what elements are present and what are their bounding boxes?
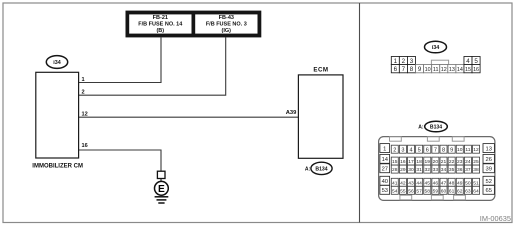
svg-text:6: 6 bbox=[394, 66, 398, 73]
B134 pin 29 bbox=[399, 165, 406, 173]
svg-text:12: 12 bbox=[441, 67, 447, 73]
i84 pin 3 bbox=[407, 57, 415, 65]
svg-text:1: 1 bbox=[383, 146, 386, 152]
svg-text:15: 15 bbox=[392, 159, 398, 165]
B134 pin 49 bbox=[456, 178, 463, 186]
pin A39 label bbox=[286, 110, 297, 116]
svg-text:22: 22 bbox=[449, 159, 455, 165]
svg-text:A:: A: bbox=[418, 125, 424, 131]
svg-text:3: 3 bbox=[410, 58, 414, 65]
svg-text:54: 54 bbox=[392, 188, 398, 194]
svg-text:42: 42 bbox=[400, 180, 406, 186]
B134 pin 25 bbox=[473, 157, 480, 165]
svg-text:52: 52 bbox=[485, 179, 491, 185]
svg-text:FB-43: FB-43 bbox=[219, 15, 234, 21]
B134 pin 32 bbox=[424, 165, 431, 173]
svg-text:11: 11 bbox=[433, 67, 439, 73]
i84 pin 8 bbox=[407, 65, 415, 74]
pin 2 label bbox=[82, 90, 85, 96]
B134 pin 11 bbox=[464, 145, 471, 153]
B134 pin 26 bbox=[483, 154, 494, 163]
svg-text:8: 8 bbox=[410, 66, 414, 73]
i84 pin 1 bbox=[391, 57, 399, 65]
svg-text:14: 14 bbox=[457, 67, 463, 73]
connector B134 housing bbox=[379, 137, 495, 201]
B134 pin 23 bbox=[456, 157, 463, 165]
B134 pin 37 bbox=[464, 165, 471, 173]
svg-text:(B): (B) bbox=[156, 28, 164, 34]
svg-text:29: 29 bbox=[400, 167, 406, 173]
svg-text:61: 61 bbox=[449, 188, 455, 194]
connector label i84 (immobilizer CM connector) bbox=[46, 56, 67, 69]
i84 pin 11 bbox=[432, 65, 440, 74]
B134 pin 12 bbox=[473, 145, 480, 153]
B134 pin 51 bbox=[473, 178, 480, 186]
wire immobilizer pin 12 to ECM pin A39 bbox=[79, 116, 299, 118]
svg-text:17: 17 bbox=[408, 159, 414, 165]
wire FB-21 to immobilizer pin 1 bbox=[79, 37, 161, 82]
B134 pin 64 bbox=[473, 186, 480, 194]
B134 pin 17 bbox=[408, 157, 415, 165]
svg-text:8: 8 bbox=[442, 147, 445, 153]
B134 pin 53 bbox=[380, 185, 390, 194]
B134 pin 31 bbox=[416, 165, 423, 173]
B134 pin 4 bbox=[408, 145, 415, 153]
pin 16 label bbox=[82, 143, 88, 149]
i84 pin 10 bbox=[424, 65, 432, 74]
svg-text:65: 65 bbox=[485, 188, 491, 194]
svg-text:i34: i34 bbox=[432, 45, 440, 51]
i84 pin 14 bbox=[456, 65, 464, 74]
svg-text:A:: A: bbox=[305, 166, 311, 172]
svg-text:62: 62 bbox=[457, 188, 463, 194]
B134 pin 35 bbox=[448, 165, 455, 173]
B134 pin 28 bbox=[391, 165, 398, 173]
svg-text:49: 49 bbox=[457, 180, 463, 186]
B134 pin 58 bbox=[424, 186, 431, 194]
B134 pin 15 bbox=[391, 157, 398, 165]
svg-text:2: 2 bbox=[82, 90, 85, 96]
B134 pin 57 bbox=[416, 186, 423, 194]
B134 pin 19 bbox=[424, 157, 431, 165]
B134 pin 60 bbox=[440, 186, 447, 194]
svg-text:47: 47 bbox=[441, 180, 447, 186]
svg-text:33: 33 bbox=[433, 167, 439, 173]
svg-text:24: 24 bbox=[465, 159, 471, 165]
connector label A: B134 (under ECM) bbox=[305, 162, 332, 174]
label ECM bbox=[313, 67, 328, 74]
ground E (chassis ground) bbox=[155, 171, 169, 203]
B134 pin 30 bbox=[408, 165, 415, 173]
svg-text:2: 2 bbox=[402, 58, 406, 65]
svg-text:43: 43 bbox=[408, 180, 414, 186]
B134 pin 18 bbox=[416, 157, 423, 165]
svg-text:36: 36 bbox=[457, 167, 463, 173]
B134 pin 3 bbox=[399, 145, 406, 153]
svg-text:10: 10 bbox=[425, 67, 431, 73]
svg-text:9: 9 bbox=[450, 147, 453, 153]
label IMMOBILIZER CM bbox=[32, 164, 83, 170]
connector i84 key tab bbox=[431, 60, 448, 64]
i84 pin 15 bbox=[464, 65, 472, 74]
svg-text:63: 63 bbox=[465, 188, 471, 194]
svg-text:19: 19 bbox=[425, 159, 431, 165]
svg-text:A39: A39 bbox=[286, 110, 297, 116]
svg-text:F/B FUSE NO. 14: F/B FUSE NO. 14 bbox=[138, 22, 183, 28]
svg-text:IM-00635: IM-00635 bbox=[480, 214, 511, 223]
B134 bottom tabs bbox=[400, 195, 466, 200]
B134 pin 47 bbox=[440, 178, 447, 186]
svg-text:10: 10 bbox=[457, 147, 463, 153]
svg-text:7: 7 bbox=[434, 147, 437, 153]
svg-text:16: 16 bbox=[82, 143, 88, 149]
svg-text:FB-21: FB-21 bbox=[153, 15, 168, 21]
B134 pin 56 bbox=[408, 186, 415, 194]
svg-text:15: 15 bbox=[465, 67, 471, 73]
i84 pin 4 bbox=[464, 57, 472, 65]
i84 pin 12 bbox=[440, 65, 448, 74]
svg-text:1: 1 bbox=[394, 58, 398, 65]
i84 pin 16 bbox=[472, 65, 480, 74]
svg-text:30: 30 bbox=[408, 167, 414, 173]
svg-text:60: 60 bbox=[441, 188, 447, 194]
B134 pin 34 bbox=[440, 165, 447, 173]
svg-text:i34: i34 bbox=[53, 60, 61, 66]
B134 pin 2 bbox=[391, 145, 398, 153]
svg-text:64: 64 bbox=[473, 188, 479, 194]
svg-text:13: 13 bbox=[485, 146, 491, 152]
svg-text:31: 31 bbox=[416, 167, 422, 173]
B134 pin 54 bbox=[391, 186, 398, 194]
immobilizer CM box bbox=[36, 72, 79, 158]
svg-text:46: 46 bbox=[433, 180, 439, 186]
svg-text:1: 1 bbox=[82, 77, 85, 83]
svg-text:E: E bbox=[158, 184, 165, 195]
B134 pin 13 bbox=[483, 144, 494, 153]
B134 pin 20 bbox=[432, 157, 439, 165]
svg-text:14: 14 bbox=[382, 157, 389, 163]
svg-text:20: 20 bbox=[433, 159, 439, 165]
i84 pin 9 bbox=[416, 65, 424, 74]
B134 pin 33 bbox=[432, 165, 439, 173]
fuse FB-21 F/B FUSE NO. 14 (B) bbox=[129, 14, 192, 34]
svg-text:53: 53 bbox=[382, 188, 388, 194]
B134 pin 14 bbox=[380, 154, 390, 163]
connector label A: B134 (pinout view) bbox=[418, 121, 447, 132]
svg-text:ECM: ECM bbox=[313, 67, 328, 74]
svg-text:25: 25 bbox=[473, 159, 479, 165]
pin 1 label bbox=[82, 77, 85, 83]
svg-text:13: 13 bbox=[449, 67, 455, 73]
B134 pin 61 bbox=[448, 186, 455, 194]
svg-text:B134: B134 bbox=[430, 125, 442, 131]
B134 pin 5 bbox=[416, 145, 423, 153]
ECM box bbox=[298, 75, 343, 158]
svg-text:35: 35 bbox=[449, 167, 455, 173]
B134 pin 48 bbox=[448, 178, 455, 186]
B134 top tabs bbox=[390, 137, 465, 141]
B134 pin 55 bbox=[399, 186, 406, 194]
B134 pin 27 bbox=[380, 164, 390, 173]
B134 pin 6 bbox=[424, 145, 431, 153]
svg-text:(IG): (IG) bbox=[222, 28, 232, 34]
svg-text:45: 45 bbox=[425, 180, 431, 186]
B134 pin 62 bbox=[456, 186, 463, 194]
B134 pin 40 bbox=[380, 176, 390, 185]
svg-text:26: 26 bbox=[485, 157, 491, 163]
svg-text:4: 4 bbox=[466, 58, 470, 65]
svg-text:4: 4 bbox=[409, 147, 412, 153]
svg-text:38: 38 bbox=[473, 167, 479, 173]
B134 pin 41 bbox=[391, 178, 398, 186]
svg-text:27: 27 bbox=[382, 167, 388, 173]
svg-text:7: 7 bbox=[402, 66, 406, 73]
B134 pin 45 bbox=[424, 178, 431, 186]
svg-text:40: 40 bbox=[382, 179, 388, 185]
svg-text:39: 39 bbox=[485, 167, 491, 173]
B134 pin 10 bbox=[456, 145, 463, 153]
svg-text:58: 58 bbox=[425, 188, 431, 194]
i84 pin 13 bbox=[448, 65, 456, 74]
svg-text:11: 11 bbox=[465, 147, 470, 153]
svg-text:32: 32 bbox=[425, 167, 431, 173]
fuse FB-43 F/B FUSE NO. 3 (IG) bbox=[195, 14, 258, 34]
B134 pin 22 bbox=[448, 157, 455, 165]
i84 pin 5 bbox=[472, 57, 480, 65]
svg-text:44: 44 bbox=[416, 180, 422, 186]
B134 pin 9 bbox=[448, 145, 455, 153]
figure number IM-00635 bbox=[480, 214, 511, 223]
B134 pin 38 bbox=[473, 165, 480, 173]
svg-text:B134: B134 bbox=[315, 166, 327, 172]
B134 pin 43 bbox=[408, 178, 415, 186]
B134 pin 63 bbox=[464, 186, 471, 194]
B134 pin 7 bbox=[432, 145, 439, 153]
fuse block frame bbox=[126, 11, 262, 38]
svg-text:55: 55 bbox=[400, 188, 406, 194]
wire immobilizer pin 16 to ground bbox=[79, 150, 161, 171]
svg-text:9: 9 bbox=[418, 66, 422, 73]
svg-text:2: 2 bbox=[393, 147, 396, 153]
svg-text:5: 5 bbox=[418, 147, 421, 153]
B134 pin 50 bbox=[464, 178, 471, 186]
svg-text:12: 12 bbox=[473, 147, 479, 153]
B134 pin 52 bbox=[483, 176, 494, 185]
B134 pin 44 bbox=[416, 178, 423, 186]
svg-text:3: 3 bbox=[401, 147, 404, 153]
svg-text:48: 48 bbox=[449, 180, 455, 186]
B134 pin 16 bbox=[399, 157, 406, 165]
wire FB-43 to immobilizer pin 2 bbox=[79, 37, 226, 95]
B134 pin 59 bbox=[432, 186, 439, 194]
svg-text:F/B FUSE NO. 3: F/B FUSE NO. 3 bbox=[206, 22, 247, 28]
B134 pin 21 bbox=[440, 157, 447, 165]
B134 pin 8 bbox=[440, 145, 447, 153]
svg-text:16: 16 bbox=[400, 159, 406, 165]
svg-text:37: 37 bbox=[465, 167, 471, 173]
svg-text:34: 34 bbox=[441, 167, 447, 173]
B134 pin 39 bbox=[483, 164, 494, 173]
svg-text:23: 23 bbox=[457, 159, 463, 165]
connector label i84 (pinout view) bbox=[425, 41, 447, 53]
svg-text:59: 59 bbox=[433, 188, 439, 194]
pin 12 label bbox=[82, 112, 88, 118]
svg-text:50: 50 bbox=[465, 180, 471, 186]
svg-text:56: 56 bbox=[408, 188, 414, 194]
i84 pin 2 bbox=[399, 57, 407, 65]
svg-text:28: 28 bbox=[392, 167, 398, 173]
svg-text:5: 5 bbox=[474, 58, 478, 65]
svg-text:51: 51 bbox=[473, 180, 479, 186]
i84 pin 6 bbox=[391, 65, 399, 74]
svg-text:18: 18 bbox=[416, 159, 422, 165]
svg-text:57: 57 bbox=[416, 188, 422, 194]
B134 pin 1 bbox=[380, 144, 390, 153]
B134 pin 46 bbox=[432, 178, 439, 186]
i84 pin 7 bbox=[399, 65, 407, 74]
B134 pin 24 bbox=[464, 157, 471, 165]
svg-text:12: 12 bbox=[82, 112, 88, 118]
svg-text:IMMOBILIZER CM: IMMOBILIZER CM bbox=[32, 164, 83, 170]
svg-text:41: 41 bbox=[392, 180, 398, 186]
B134 pin 42 bbox=[399, 178, 406, 186]
B134 pin 36 bbox=[456, 165, 463, 173]
B134 pin 65 bbox=[483, 185, 494, 194]
svg-text:21: 21 bbox=[441, 159, 447, 165]
svg-text:16: 16 bbox=[473, 67, 479, 73]
svg-text:6: 6 bbox=[426, 147, 429, 153]
